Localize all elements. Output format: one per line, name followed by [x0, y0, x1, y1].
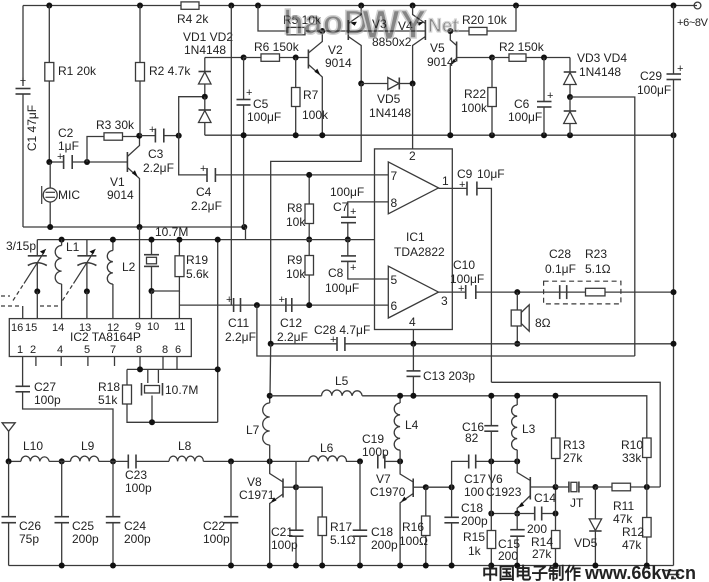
capacitor C8: [325, 240, 388, 296]
node speaker bottom: [514, 341, 520, 347]
node R8 top: [306, 172, 312, 178]
svg-text:75p: 75p: [19, 532, 39, 546]
transistor V4: [372, 6, 425, 84]
capacitor C5: [237, 58, 282, 136]
op-amp IC1 second amp triangle: [388, 266, 448, 329]
resistor R23: [586, 288, 606, 296]
svg-text:JT: JT: [570, 496, 584, 510]
wire top supply rail: [23, 5, 697, 7]
svg-text:100μF: 100μF: [330, 185, 364, 199]
resistor R18: [98, 369, 218, 422]
svg-text:C28 4.7μF: C28 4.7μF: [314, 323, 370, 337]
capacitor C26: [2, 517, 42, 566]
node ceramic bottom: [149, 288, 155, 294]
svg-text:100μF: 100μF: [637, 83, 671, 97]
terminal +6~8V: [677, 2, 709, 29]
resistor R8: [286, 175, 314, 240]
node R11 right / R10 bottom: [644, 484, 650, 490]
wire osc rail y396: [270, 395, 322, 397]
inductor L1: [55, 240, 79, 319]
capacitor C29: [637, 6, 683, 136]
capacitor C18 200p first: [353, 461, 398, 565]
node V3 collector line / VD5 left: [358, 81, 364, 87]
trimmer gang dashes: [1, 296, 60, 306]
capacitor C13: [407, 344, 476, 396]
inductor L10: [21, 439, 49, 461]
svg-text:C10: C10: [453, 258, 475, 272]
svg-text:R7: R7: [303, 88, 319, 102]
node C12 right / R9 bottom: [306, 302, 312, 308]
ground: [664, 571, 683, 579]
svg-text:C27: C27: [34, 380, 56, 394]
svg-text:10.7M: 10.7M: [155, 225, 188, 239]
svg-text:6: 6: [391, 299, 398, 313]
wire long vertical from top rail to C11: [230, 6, 232, 306]
svg-text:+: +: [246, 87, 252, 99]
svg-text:C7: C7: [333, 200, 349, 214]
svg-text:9014: 9014: [427, 55, 454, 69]
wire L10-L9: [49, 460, 70, 462]
node L9/C23 junction: [110, 458, 116, 464]
node L4 top: [397, 393, 403, 399]
svg-text:R15: R15: [463, 530, 485, 544]
capacitor C15: [498, 514, 525, 566]
node speaker top: [514, 289, 520, 295]
svg-text:100Ω: 100Ω: [399, 534, 428, 548]
wire audio supply loop from V3 emitter line: [271, 84, 362, 344]
svg-text:14: 14: [52, 322, 64, 334]
svg-text:L6: L6: [320, 441, 334, 455]
svg-text:C22: C22: [203, 519, 225, 533]
capacitor C22: [203, 461, 238, 565]
svg-text:200p: 200p: [461, 514, 488, 528]
svg-text:C1970: C1970: [370, 485, 406, 499]
capacitor C10: [450, 258, 517, 299]
svg-text:200p: 200p: [371, 538, 398, 552]
svg-text:8: 8: [391, 196, 398, 210]
resistor R15: [463, 514, 496, 566]
svg-text:2: 2: [30, 344, 36, 356]
svg-text:R16: R16: [402, 520, 424, 534]
svg-text:L8: L8: [178, 439, 192, 453]
svg-text:9014: 9014: [325, 56, 352, 70]
antenna: [2, 423, 15, 462]
wire L6 left leg: [295, 461, 297, 530]
svg-text:+: +: [350, 262, 356, 274]
svg-text:V6: V6: [488, 472, 503, 486]
svg-text:100μF: 100μF: [325, 281, 359, 295]
svg-text:1N4148: 1N4148: [579, 65, 621, 79]
svg-text:7: 7: [110, 344, 116, 356]
wire left edge vertical lower: [22, 94, 24, 227]
capacitor C3: [139, 124, 178, 175]
node C16 bottom: [488, 458, 494, 464]
svg-text:R18: R18: [98, 380, 120, 394]
wire C3 node up to VD junction: [179, 97, 205, 136]
wire V1 emitter line to pin 9: [139, 227, 141, 319]
svg-text:8: 8: [162, 344, 168, 356]
svg-text:2.2μF: 2.2μF: [225, 330, 256, 344]
node pin8 junction: [137, 366, 143, 372]
svg-text:11: 11: [174, 321, 185, 333]
wire pin5 links via C12 rail: [179, 304, 388, 306]
wire middle supply rail: [205, 134, 674, 136]
node L3 bottom / V6 collector: [514, 458, 520, 464]
wire RF rail continues y461 mid segment is done; bottom ground rail: [8, 461, 10, 516]
transistor V8: [239, 461, 296, 565]
svg-text:V8: V8: [247, 475, 262, 489]
svg-text:100: 100: [464, 485, 484, 499]
node R8 bottom: [306, 237, 312, 243]
svg-text:L7: L7: [246, 423, 260, 437]
wire pin11 to C11 rail riser: [178, 304, 180, 306]
watermark top gray: [283, 3, 459, 47]
capacitor C16: [462, 396, 498, 462]
transistor V3: [348, 6, 387, 84]
node V7 base / R16 top: [423, 484, 429, 490]
svg-text:R3 30k: R3 30k: [96, 118, 135, 132]
svg-text:1N4148: 1N4148: [369, 106, 411, 120]
capacitor C25: [55, 461, 100, 565]
node V8 collector / L7 bottom: [267, 458, 273, 464]
svg-text:15: 15: [25, 322, 37, 334]
node rail dots: [47, 224, 247, 230]
node R13 osc rail: [553, 393, 559, 399]
node R15 top: [488, 511, 494, 517]
svg-text:C5: C5: [253, 97, 269, 111]
svg-text:R10: R10: [621, 438, 643, 452]
svg-text:100μF: 100μF: [508, 110, 542, 124]
capacitor C4: [191, 163, 388, 213]
svg-text:中国电子制作: 中国电子制作: [482, 563, 582, 582]
svg-text:C1971: C1971: [239, 488, 275, 502]
svg-text:+: +: [57, 151, 63, 163]
resistor R7: [292, 58, 330, 136]
svg-text:10.7M: 10.7M: [165, 383, 198, 397]
svg-text:V5: V5: [430, 41, 445, 55]
svg-text:C18: C18: [371, 525, 393, 539]
svg-text:C17: C17: [464, 472, 486, 486]
resistor R11: [595, 483, 660, 526]
svg-text:+: +: [459, 179, 465, 191]
transistor V5: [427, 31, 492, 135]
svg-text:TDA2822: TDA2822: [394, 245, 445, 259]
diode VD4: [564, 97, 577, 135]
svg-text:L1: L1: [66, 240, 80, 254]
svg-text:13: 13: [79, 322, 91, 334]
svg-text:3/15p: 3/15p: [6, 239, 36, 253]
svg-text:R11: R11: [613, 499, 634, 513]
node C13 bottom: [410, 393, 416, 399]
svg-text:C12: C12: [280, 316, 302, 330]
wire C16 node to R15: [490, 461, 492, 513]
capacitor C18 200p second: [444, 487, 488, 565]
svg-text:MIC: MIC: [58, 188, 80, 202]
wire ceramic to pin10: [151, 291, 153, 319]
svg-text:R19: R19: [186, 253, 208, 267]
svg-text:200p: 200p: [124, 532, 151, 546]
svg-text:2.2μF: 2.2μF: [143, 161, 174, 175]
node C16 top: [488, 393, 494, 399]
svg-text:R1 20k: R1 20k: [58, 64, 97, 78]
wire C29 line down right side: [673, 135, 675, 565]
svg-text:2.2μF: 2.2μF: [277, 330, 308, 344]
resistor R20: [450, 6, 516, 35]
resistor R12: [622, 487, 651, 566]
svg-text:8: 8: [136, 344, 142, 356]
microphone MIC: [42, 162, 81, 227]
svg-text:R22: R22: [464, 87, 486, 101]
capacitor C7: [330, 185, 364, 240]
IC2 top pin labels: [11, 321, 185, 334]
node C7/C8 mid: [345, 237, 351, 243]
node VD1/VD2 mid: [202, 94, 208, 100]
wire CT2 to pin13: [86, 291, 88, 318]
svg-text:R13: R13: [563, 438, 585, 452]
wire V8 base to R17: [296, 487, 322, 517]
node V1 collector: [136, 133, 142, 139]
svg-text:C23: C23: [125, 468, 147, 482]
svg-text:C4: C4: [196, 185, 212, 199]
resistor R2: [136, 6, 192, 136]
node L2 top: [110, 237, 116, 243]
node antenna junction: [6, 458, 12, 464]
svg-text:10μF: 10μF: [477, 167, 505, 181]
node L1 top: [59, 237, 65, 243]
node V2 base / R7 top: [293, 55, 299, 61]
node x218 top: [215, 237, 221, 243]
node V5 collector: [447, 28, 453, 34]
svg-text:C29: C29: [640, 69, 662, 83]
wire left edge vertical: [22, 6, 24, 87]
svg-text:C26: C26: [19, 519, 41, 533]
capacitor C24: [106, 461, 151, 565]
resistor R2 (150k): [492, 40, 570, 61]
wire pin11 riser: [178, 291, 180, 319]
svg-text:R8: R8: [287, 201, 303, 215]
wire C2 to V1 base: [72, 161, 127, 163]
crystal 10.7M discriminator: [142, 369, 199, 422]
svg-text:3: 3: [441, 294, 448, 308]
svg-text:2.2μF: 2.2μF: [191, 199, 222, 213]
node C2 left: [46, 159, 52, 165]
svg-text:R9: R9: [287, 253, 303, 267]
svg-text:9: 9: [135, 321, 141, 333]
trimmer capacitor CT2 3/15p: [63, 240, 97, 301]
svg-text:16: 16: [11, 322, 23, 334]
svg-text:27k: 27k: [532, 547, 552, 561]
transistor V1: [107, 136, 140, 227]
svg-text:VD5: VD5: [377, 92, 401, 106]
diode VD2: [199, 97, 212, 136]
svg-text:+: +: [350, 206, 356, 218]
svg-text:12: 12: [107, 322, 119, 334]
svg-text:C11: C11: [228, 316, 249, 330]
capacitor C1: [16, 75, 40, 151]
node R3 drop: [84, 159, 90, 165]
wire rail jog down: [245, 227, 247, 240]
resistor R9: [286, 240, 314, 306]
resistor R4: [177, 2, 209, 26]
node JT right / VD5 top: [592, 484, 598, 490]
wire MIC/V1 emitter ground rail: [23, 226, 246, 228]
svg-text:4: 4: [57, 344, 63, 356]
wire emitter rail y513: [491, 513, 534, 515]
svg-text:4: 4: [409, 315, 416, 329]
svg-text:C28: C28: [549, 247, 571, 261]
node crystal bottom: [149, 419, 155, 425]
wire IC1 pin3 output to C10: [439, 291, 466, 293]
crystal JT: [556, 482, 596, 511]
wire VD mid to audio supply loop: [570, 97, 635, 356]
svg-text:1N4148: 1N4148: [184, 43, 226, 57]
inductor L5: [322, 374, 647, 438]
svg-text:47k: 47k: [613, 512, 633, 526]
node CT1 bottom: [34, 288, 40, 294]
svg-text:C8: C8: [328, 266, 344, 280]
resistor R17: [318, 517, 356, 566]
node mid rail dots: [241, 132, 677, 138]
svg-text:R17: R17: [330, 520, 352, 534]
svg-text:C24: C24: [124, 519, 146, 533]
diode VD3: [564, 51, 628, 97]
resistor R19: [152, 240, 210, 291]
svg-text:10: 10: [147, 321, 159, 333]
node V5 base / R22 top: [489, 55, 495, 61]
svg-text:R2 150k: R2 150k: [499, 40, 545, 54]
wire R13/R14 node riser: [555, 487, 557, 514]
node R6 left / C5 top: [241, 55, 247, 61]
svg-text:C2: C2: [58, 126, 74, 140]
node ceramic top: [149, 237, 155, 243]
resistor R13: [552, 396, 586, 487]
svg-text:+: +: [547, 90, 553, 102]
watermark bottom red: [482, 563, 696, 582]
svg-text:51k: 51k: [98, 393, 118, 407]
capacitor C28 0.1uF dashed network box: [544, 247, 621, 304]
wire V3/V4 base link: [348, 30, 425, 32]
svg-text:R12: R12: [622, 525, 644, 539]
wire feedback rail y344: [271, 343, 337, 345]
transistor V7: [370, 461, 426, 565]
node V2 collector: [319, 28, 325, 34]
svg-text:L9: L9: [81, 439, 95, 453]
svg-text:100p: 100p: [271, 538, 298, 552]
op-amp IC1 first amp triangle: [388, 149, 449, 214]
wire R5 branch from rail: [258, 6, 287, 32]
svg-text:1k: 1k: [468, 544, 482, 558]
svg-text:+: +: [279, 294, 285, 306]
svg-text:7: 7: [391, 169, 398, 183]
inductor L3: [512, 396, 536, 462]
capacitor C27: [16, 357, 114, 462]
node L6 right / C18 top: [357, 458, 363, 464]
svg-text:C19: C19: [362, 432, 384, 446]
wire earphone line bottom jog: [491, 382, 660, 487]
resistor R3: [87, 118, 139, 162]
trimmer capacitor CT1 3/15p: [6, 239, 47, 301]
svg-text:R20 10k: R20 10k: [462, 13, 508, 27]
svg-text:82: 82: [465, 431, 479, 445]
wire IC1 pin 8 to C7: [348, 202, 389, 217]
svg-text:100μF: 100μF: [450, 272, 484, 286]
capacitor C6: [508, 58, 553, 136]
svg-text:L5: L5: [335, 374, 349, 388]
svg-text:haoD: haoD: [283, 4, 368, 42]
wire L1 stub: [61, 240, 63, 246]
svg-text:5.1Ω: 5.1Ω: [585, 262, 611, 276]
svg-text:R6 150k: R6 150k: [254, 40, 300, 54]
svg-text:C21: C21: [271, 525, 293, 539]
svg-text:+: +: [20, 75, 26, 87]
svg-text:C18: C18: [461, 501, 483, 515]
svg-text:V7: V7: [376, 472, 391, 486]
svg-text:1: 1: [442, 174, 449, 188]
capacitor C14: [527, 491, 556, 536]
wire VD1 top to R6 rail: [205, 57, 244, 59]
IC IC2 TA8164P box: [9, 319, 191, 357]
node VD3/VD4 mid: [567, 94, 573, 100]
wire pin4 stub: [412, 330, 414, 344]
ceramic filter 10.7M: [144, 225, 188, 291]
node C6 top: [541, 55, 547, 61]
svg-text:+6~8V: +6~8V: [677, 17, 709, 29]
node L10/L9 junction: [59, 458, 65, 464]
diode VD5 second: [574, 487, 602, 566]
node bottom rail dots: [59, 563, 650, 569]
svg-text:+: +: [330, 334, 336, 346]
svg-text:L3: L3: [522, 422, 536, 436]
svg-text:100k: 100k: [302, 108, 329, 122]
transistor V2: [308, 31, 352, 135]
svg-text:33k: 33k: [622, 451, 642, 465]
svg-text:8Ω: 8Ω: [535, 316, 551, 330]
wire V4 collector to IC1 pin2: [412, 84, 414, 149]
node pin4 junction: [410, 341, 416, 347]
svg-text:100k: 100k: [461, 101, 488, 115]
svg-text:R4 2k: R4 2k: [177, 12, 209, 26]
wire pin16 stub: [22, 306, 24, 319]
resistor R1: [45, 6, 97, 163]
IC2 bottom pin labels: [17, 344, 181, 356]
svg-text:V1: V1: [110, 175, 125, 189]
capacitor C2: [49, 126, 79, 169]
IC op-amp U IC1 box: [375, 149, 453, 330]
svg-text:10k: 10k: [286, 267, 306, 281]
resistor R16: [399, 487, 430, 565]
svg-text:L4: L4: [405, 418, 419, 432]
svg-text:L10: L10: [23, 439, 43, 453]
svg-text:L2: L2: [122, 260, 136, 274]
wire L9-C23: [99, 460, 128, 462]
wire C5 line below rail to MIC rail: [243, 135, 245, 227]
capacitor C28 4.7uF: [314, 323, 674, 351]
inductor L8: [169, 439, 296, 461]
diode VD5: [361, 78, 412, 121]
svg-text:www.66kv.cn: www.66kv.cn: [584, 563, 696, 582]
svg-text:C13 203p: C13 203p: [423, 369, 475, 383]
svg-text:WY: WY: [362, 3, 427, 47]
node V8 base: [293, 484, 299, 490]
svg-text:100p: 100p: [203, 532, 230, 546]
resistor R10: [621, 438, 651, 487]
wire bias rail y240: [37, 239, 374, 241]
svg-text:100μF: 100μF: [247, 110, 281, 124]
node L3 top: [514, 393, 520, 399]
inductor L9: [71, 439, 99, 461]
svg-text:0.1μF: 0.1μF: [545, 262, 576, 276]
node y344 right end: [671, 341, 677, 347]
